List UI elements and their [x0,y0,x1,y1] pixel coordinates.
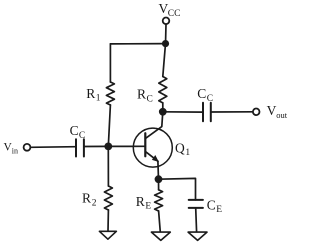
wire emitter to emitter node [157,161,160,179]
svg-text:V: V [267,103,277,118]
node collector junction [159,108,167,116]
wire R1 bottom to base node [108,105,110,146]
node base junction [104,143,112,151]
svg-text:C: C [79,131,85,141]
label Q1 [175,141,190,159]
capacitor CE [189,200,203,208]
wire Vin to input capacitor [30,146,76,149]
svg-text:CC: CC [168,9,181,19]
wire RC bottom to collector node [162,103,164,112]
svg-text:E: E [216,205,222,215]
wire RC top lead [163,44,166,77]
label CE [207,197,223,215]
svg-text:Q: Q [175,141,185,156]
ground RE [151,232,170,240]
label Vin [4,141,19,155]
label R1 [86,86,101,104]
svg-text:C: C [197,86,206,101]
label RC [137,86,153,104]
wire collector node to output capacitor [163,111,203,113]
wire emitter node to CE [159,178,196,200]
node VCC junction [162,40,169,47]
wire R1 top lead [109,44,111,82]
wire input capacitor to base node [84,145,108,147]
capacitor CC output [203,103,211,122]
transistor Q1 circle [133,128,172,167]
wire RE to ground [159,211,161,232]
svg-text:in: in [12,146,18,155]
label R2 [82,190,97,208]
wire output capacitor to Vout [211,111,253,113]
svg-text:R: R [82,190,91,205]
label CC output [197,86,213,104]
wire R2 top lead [107,146,109,186]
wire top rail to R1 branch [110,43,165,45]
label Vout [267,103,288,120]
resistor R1 [106,82,114,105]
svg-text:R: R [137,86,146,101]
svg-text:R: R [136,194,145,209]
svg-text:1: 1 [96,93,101,103]
svg-text:R: R [86,86,95,101]
transistor Q1 emitter arrow [152,155,159,162]
svg-text:C: C [207,197,216,212]
label CC input [70,123,86,141]
svg-text:2: 2 [92,198,97,208]
svg-text:C: C [207,94,213,104]
wire VCC terminal to top node [165,24,167,40]
node emitter junction [155,175,163,183]
wire R2 to ground [107,210,109,231]
svg-text:E: E [145,202,151,212]
capacitor CC input [76,139,84,156]
ground R2 [99,231,116,239]
svg-text:C: C [147,94,153,104]
label VCC [159,1,181,19]
ground CE [188,232,207,240]
label RE [136,194,152,212]
resistor RE [155,190,163,211]
wire CE to ground [195,208,198,232]
wire base node to Q1 base [108,145,145,147]
svg-text:out: out [276,110,288,120]
terminal Vout [253,109,260,116]
svg-text:1: 1 [185,148,190,158]
transistor Q1 emitter lead [145,151,158,161]
wire RE top lead [158,179,160,190]
resistor RC [159,77,167,103]
resistor R2 [104,186,112,210]
transistor Q1 base bar [144,133,146,156]
transistor Q1 collector lead [145,112,163,139]
terminal VCC [163,18,170,25]
svg-text:C: C [70,123,79,138]
terminal Vin [24,144,31,151]
